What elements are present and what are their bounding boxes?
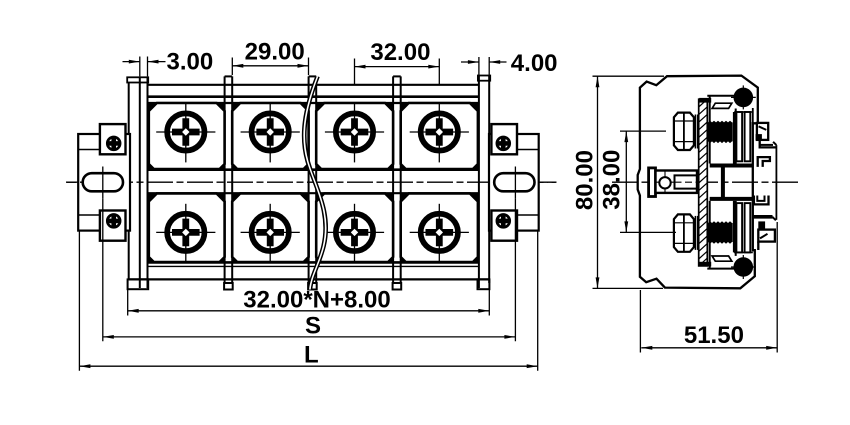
dim 38.00 — [598, 131, 676, 232]
hex terminal screw head (side) — [674, 113, 694, 150]
svg-text:L: L — [304, 342, 319, 369]
svg-text:4.00: 4.00 — [511, 50, 558, 77]
mirrored upper/lower internals — [674, 85, 756, 163]
svg-text:29.00: 29.00 — [245, 39, 305, 66]
bracket screw box top — [491, 124, 517, 154]
dim S — [102, 198, 104, 341]
left mounting foot — [128, 279, 149, 289]
bracket screw top-right — [497, 137, 510, 150]
svg-text:38.00: 38.00 — [598, 150, 625, 210]
body middle band lines — [148, 168, 479, 171]
center line front view — [67, 181, 557, 183]
right end wall — [478, 76, 480, 288]
bracket screw box bottom — [100, 211, 126, 241]
DIN rail clip upper — [753, 108, 777, 220]
hatch end cap — [699, 98, 711, 103]
thread block (black) — [708, 121, 733, 143]
dim 51.50 — [640, 222, 777, 353]
bracket plate — [489, 134, 539, 231]
svg-text:3.00: 3.00 — [167, 49, 214, 76]
body fixing screw (black circle) — [731, 96, 756, 98]
left mounting bracket — [66, 124, 130, 241]
body top band lines — [148, 84, 479, 86]
wire slot — [712, 103, 732, 108]
terminal cells (black corner blocks + white octagons) — [148, 103, 478, 263]
dim 3.00 — [139, 57, 141, 77]
svg-text:51.50: 51.50 — [684, 322, 744, 349]
vertical slots — [734, 111, 753, 113]
divider wall 1 — [224, 76, 233, 289]
hatched clamp plate — [699, 99, 708, 266]
dim 29.00 — [231, 58, 233, 76]
bracket screw bottom-left — [107, 215, 120, 228]
dim 32.00 — [354, 59, 356, 85]
bracket slot (oval) — [83, 173, 123, 191]
screw A3 (col3,row1) — [325, 103, 384, 162]
center line side view — [612, 181, 798, 183]
divider wall 3 — [393, 76, 402, 289]
screw B4 (col4,row2) — [410, 204, 469, 263]
bracket screw bottom-right — [497, 215, 510, 228]
center cavity — [710, 164, 753, 168]
svg-text:S: S — [305, 312, 321, 339]
screw B2 (col2,row2) — [241, 204, 300, 263]
screw B3 (col3,row2) — [325, 204, 384, 263]
screw A1 (col1,row1) — [156, 103, 215, 162]
right mounting foot — [478, 279, 490, 289]
body bottom band lines — [148, 261, 479, 264]
dim 32.00*N+8.00 — [127, 290, 129, 316]
dim 4.00 — [478, 57, 480, 76]
bracket screw top-left — [107, 137, 120, 150]
side body outline — [638, 76, 758, 289]
screw B1 (col1,row2) — [156, 204, 215, 263]
cage top lines — [709, 96, 711, 164]
center pin assembly — [649, 168, 656, 197]
SIDE VIEW — [572, 76, 799, 353]
right mounting bracket — [489, 124, 557, 241]
dim 80.00 — [572, 76, 665, 288]
svg-text:32.00*N+8.00: 32.00*N+8.00 — [243, 286, 390, 313]
body left outer column — [128, 82, 130, 279]
bracket screw box bottom — [491, 211, 517, 241]
bracket screw box top — [100, 124, 126, 154]
bracket slot (oval) — [494, 173, 534, 191]
screw A2 (col2,row1) — [241, 103, 300, 162]
svg-text:32.00: 32.00 — [370, 39, 430, 66]
left end wall — [139, 77, 141, 288]
bracket plate — [78, 134, 130, 231]
divider wall 2 — [308, 76, 317, 289]
break (wavy) line band — [303, 77, 328, 290]
washer lines — [694, 115, 696, 149]
screw A4 (col4,row1) — [410, 103, 469, 162]
svg-text:80.00: 80.00 — [572, 150, 599, 210]
dim L — [78, 231, 80, 371]
DIN rail clip lower — [753, 196, 776, 251]
